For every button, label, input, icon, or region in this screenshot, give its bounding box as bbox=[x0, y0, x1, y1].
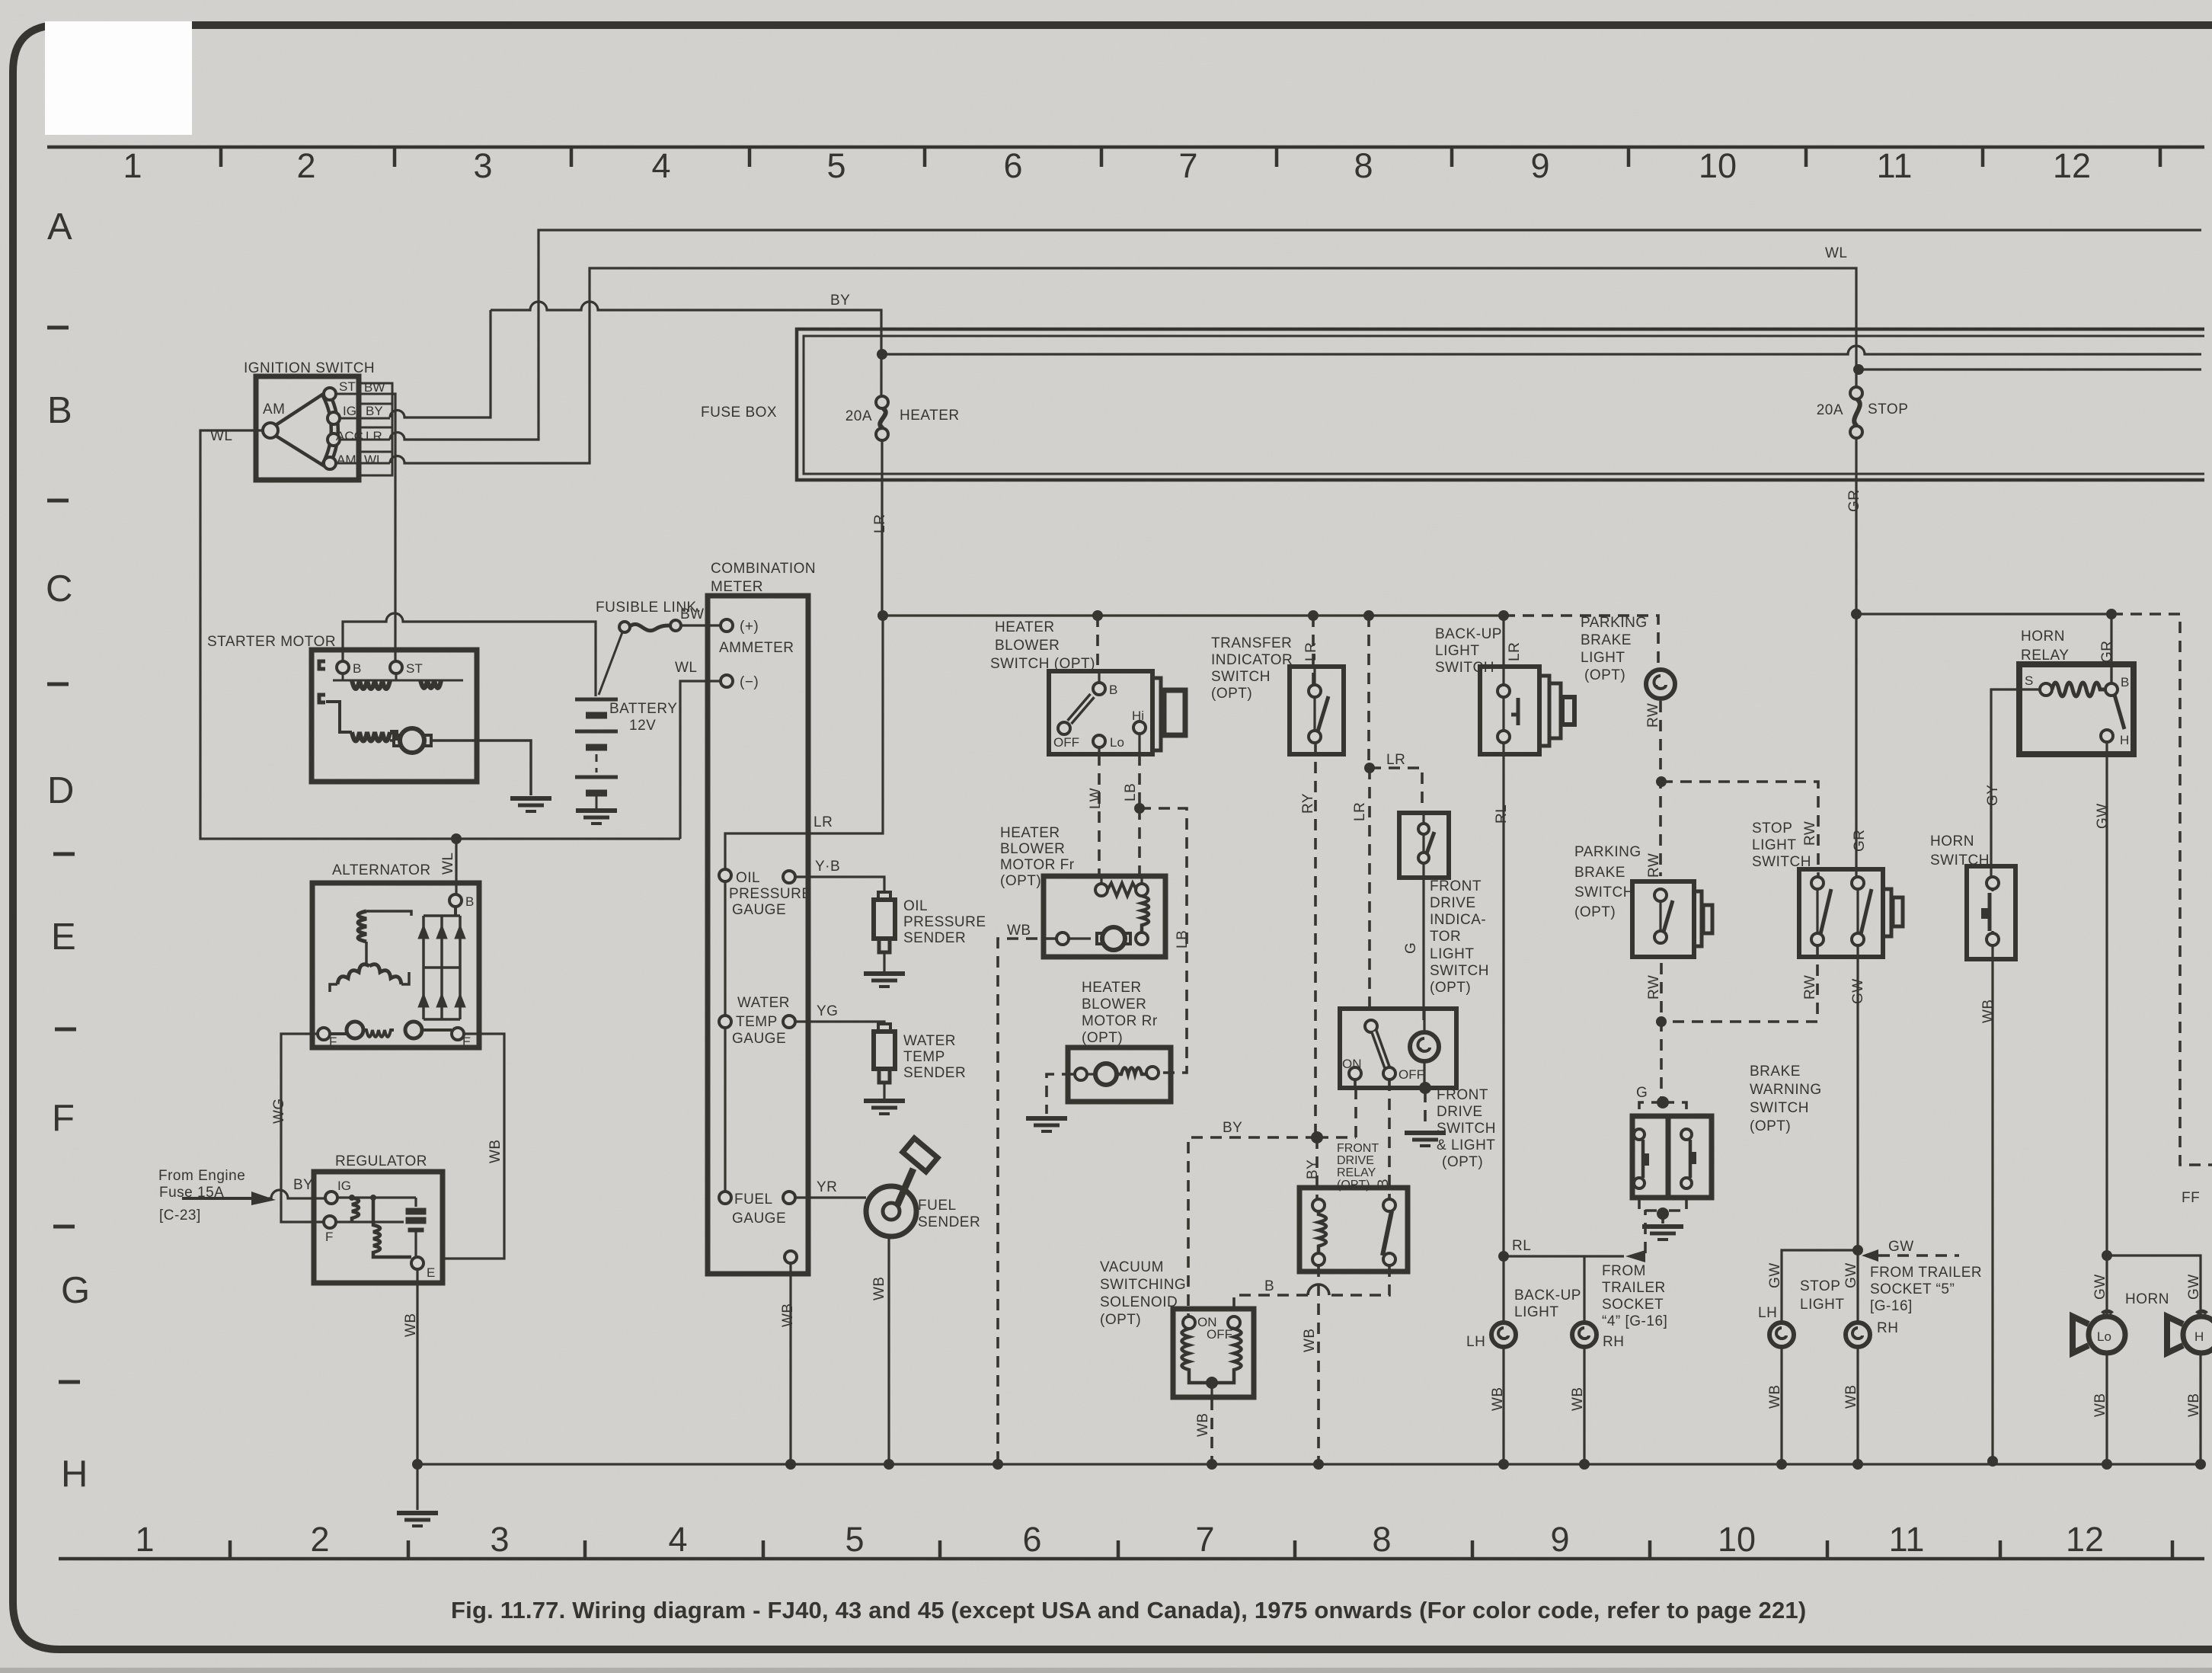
svg-text:3: 3 bbox=[490, 1520, 509, 1559]
svg-text:GW: GW bbox=[2095, 803, 2111, 829]
svg-text:BLOWER: BLOWER bbox=[1000, 841, 1065, 857]
svg-text:INDICATOR: INDICATOR bbox=[1211, 652, 1293, 668]
svg-text:[C-23]: [C-23] bbox=[159, 1208, 201, 1224]
svg-text:12: 12 bbox=[2066, 1520, 2104, 1559]
svg-text:GR: GR bbox=[1852, 830, 1868, 852]
svg-text:1: 1 bbox=[135, 1520, 154, 1559]
svg-text:LIGHT: LIGHT bbox=[1581, 650, 1625, 666]
svg-text:H: H bbox=[2194, 1329, 2204, 1344]
svg-text:STOP: STOP bbox=[1800, 1278, 1840, 1294]
svg-text:GAUGE: GAUGE bbox=[732, 1211, 786, 1227]
svg-text:From Engine: From Engine bbox=[158, 1168, 245, 1184]
svg-text:7: 7 bbox=[1178, 146, 1197, 185]
svg-text:BY: BY bbox=[1223, 1120, 1242, 1136]
svg-text:WB: WB bbox=[780, 1303, 796, 1327]
svg-text:PARKING: PARKING bbox=[1581, 615, 1648, 631]
svg-text:B: B bbox=[353, 661, 361, 676]
svg-text:ST: ST bbox=[339, 379, 356, 394]
svg-text:D: D bbox=[47, 770, 74, 811]
svg-text:20A: 20A bbox=[1817, 402, 1843, 418]
svg-text:HEATER: HEATER bbox=[995, 619, 1055, 635]
svg-text:RH: RH bbox=[1877, 1320, 1898, 1336]
svg-text:LR: LR bbox=[1507, 642, 1523, 661]
svg-text:PRESSURE: PRESSURE bbox=[729, 886, 812, 902]
svg-text:6: 6 bbox=[1022, 1520, 1041, 1559]
svg-text:GW: GW bbox=[2092, 1274, 2108, 1300]
svg-text:BACK-UP: BACK-UP bbox=[1435, 626, 1502, 642]
svg-text:8: 8 bbox=[1354, 146, 1373, 185]
svg-text:10: 10 bbox=[1718, 1520, 1756, 1559]
svg-text:RELAY: RELAY bbox=[2021, 648, 2069, 664]
svg-text:SENDER: SENDER bbox=[903, 1065, 966, 1081]
svg-text:REGULATOR: REGULATOR bbox=[335, 1153, 427, 1169]
svg-text:YR: YR bbox=[817, 1179, 837, 1195]
svg-text:G: G bbox=[1636, 1085, 1648, 1101]
svg-text:TEMP: TEMP bbox=[736, 1014, 778, 1030]
svg-text:Fuse 15A: Fuse 15A bbox=[159, 1185, 224, 1201]
svg-text:BLOWER: BLOWER bbox=[995, 638, 1060, 654]
svg-text:3: 3 bbox=[473, 146, 492, 185]
svg-text:WB: WB bbox=[487, 1139, 503, 1163]
svg-text:HEATER: HEATER bbox=[1082, 980, 1142, 996]
svg-text:IG: IG bbox=[343, 404, 356, 418]
svg-text:F: F bbox=[329, 1035, 337, 1049]
svg-text:(OPT): (OPT) bbox=[1430, 980, 1471, 996]
svg-text:VACUUM: VACUUM bbox=[1100, 1259, 1164, 1275]
svg-text:SOLENOID: SOLENOID bbox=[1100, 1294, 1178, 1310]
svg-text:COMBINATION: COMBINATION bbox=[711, 561, 816, 577]
svg-text:AM: AM bbox=[337, 453, 356, 467]
svg-text:(OPT): (OPT) bbox=[1750, 1118, 1791, 1134]
svg-text:BY: BY bbox=[830, 293, 850, 309]
svg-text:RW: RW bbox=[1646, 975, 1662, 1000]
svg-text:OFF: OFF bbox=[1053, 735, 1079, 750]
svg-text:BY: BY bbox=[293, 1177, 313, 1193]
svg-text:LH: LH bbox=[1466, 1334, 1485, 1350]
svg-text:ALTERNATOR: ALTERNATOR bbox=[332, 862, 431, 878]
svg-text:FUSE BOX: FUSE BOX bbox=[701, 405, 777, 421]
svg-text:(OPT): (OPT) bbox=[1584, 667, 1625, 683]
svg-text:WARNING: WARNING bbox=[1750, 1082, 1822, 1098]
svg-text:11: 11 bbox=[1877, 146, 1913, 185]
svg-text:HORN: HORN bbox=[2125, 1291, 2169, 1307]
svg-text:WB: WB bbox=[1570, 1387, 1586, 1411]
svg-text:SWITCH: SWITCH bbox=[1750, 1100, 1809, 1116]
svg-text:E: E bbox=[51, 916, 76, 958]
svg-text:BY: BY bbox=[1305, 1160, 1321, 1179]
svg-text:TRANSFER: TRANSFER bbox=[1211, 635, 1292, 651]
svg-text:BW: BW bbox=[364, 380, 385, 395]
svg-text:STARTER MOTOR: STARTER MOTOR bbox=[207, 634, 336, 650]
svg-text:C: C bbox=[46, 568, 72, 609]
svg-text:S: S bbox=[2025, 673, 2033, 688]
svg-text:Y·B: Y·B bbox=[815, 859, 840, 875]
svg-text:9: 9 bbox=[1550, 1520, 1569, 1559]
svg-text:HEATER: HEATER bbox=[1000, 825, 1060, 841]
svg-text:H: H bbox=[61, 1454, 88, 1495]
svg-text:12V: 12V bbox=[629, 718, 656, 734]
svg-text:BY: BY bbox=[366, 404, 383, 418]
svg-text:E: E bbox=[427, 1265, 435, 1280]
svg-text:WL: WL bbox=[1825, 245, 1848, 261]
svg-text:RY: RY bbox=[1300, 793, 1316, 814]
svg-text:STOP: STOP bbox=[1868, 401, 1908, 417]
svg-text:9: 9 bbox=[1530, 146, 1549, 185]
svg-text:FRONT: FRONT bbox=[1337, 1142, 1379, 1155]
svg-text:F: F bbox=[325, 1230, 333, 1244]
svg-text:MOTOR Rr: MOTOR Rr bbox=[1082, 1013, 1158, 1029]
svg-text:7: 7 bbox=[1195, 1520, 1214, 1559]
svg-text:B: B bbox=[465, 894, 474, 909]
svg-text:BATTERY: BATTERY bbox=[609, 701, 677, 717]
svg-text:BRAKE: BRAKE bbox=[1750, 1064, 1801, 1080]
svg-text:Hi: Hi bbox=[1132, 709, 1144, 723]
svg-text:5: 5 bbox=[845, 1520, 864, 1559]
svg-text:FRONT: FRONT bbox=[1430, 878, 1482, 894]
svg-text:6: 6 bbox=[1003, 146, 1022, 185]
svg-text:G: G bbox=[61, 1270, 90, 1311]
svg-text:H: H bbox=[2120, 733, 2129, 747]
svg-text:PARKING: PARKING bbox=[1574, 844, 1641, 860]
svg-text:HORN: HORN bbox=[1930, 833, 1974, 849]
svg-text:SWITCH: SWITCH bbox=[1437, 1121, 1496, 1137]
svg-text:1: 1 bbox=[123, 146, 142, 185]
svg-text:SWITCH: SWITCH bbox=[1435, 660, 1494, 676]
svg-text:2: 2 bbox=[296, 146, 315, 185]
svg-text:Lo: Lo bbox=[2097, 1329, 2111, 1344]
svg-text:LR: LR bbox=[872, 514, 888, 533]
svg-text:LB: LB bbox=[1175, 930, 1191, 948]
svg-text:SOCKET: SOCKET bbox=[1602, 1297, 1664, 1313]
svg-text:GAUGE: GAUGE bbox=[732, 902, 786, 918]
svg-text:SWITCH: SWITCH bbox=[1430, 963, 1489, 979]
svg-text:B: B bbox=[1376, 1179, 1392, 1188]
svg-text:SWITCHING: SWITCHING bbox=[1100, 1277, 1186, 1293]
svg-text:OIL: OIL bbox=[736, 870, 760, 886]
svg-text:2: 2 bbox=[310, 1520, 329, 1559]
svg-text:INDICA-: INDICA- bbox=[1430, 912, 1486, 928]
svg-text:B: B bbox=[2121, 675, 2129, 689]
svg-text:YG: YG bbox=[817, 1003, 838, 1019]
svg-text:(OPT): (OPT) bbox=[1337, 1179, 1370, 1192]
svg-text:LW: LW bbox=[1088, 788, 1104, 809]
svg-text:GW: GW bbox=[2186, 1274, 2202, 1300]
svg-text:FUEL: FUEL bbox=[734, 1192, 773, 1208]
svg-text:IGNITION SWITCH: IGNITION SWITCH bbox=[244, 360, 375, 376]
svg-text:ST: ST bbox=[406, 661, 423, 676]
svg-text:TOR: TOR bbox=[1430, 929, 1461, 945]
svg-text:PRESSURE: PRESSURE bbox=[903, 914, 986, 930]
svg-text:GW: GW bbox=[1843, 1262, 1859, 1288]
svg-text:AMMETER: AMMETER bbox=[719, 640, 794, 656]
svg-text:SWITCH: SWITCH bbox=[1930, 852, 1990, 868]
svg-text:HEATER: HEATER bbox=[900, 408, 960, 424]
svg-text:METER: METER bbox=[711, 579, 763, 595]
svg-text:B: B bbox=[1264, 1278, 1274, 1294]
svg-text:WB: WB bbox=[1195, 1412, 1211, 1437]
svg-text:B: B bbox=[1109, 683, 1117, 697]
svg-text:LIGHT: LIGHT bbox=[1800, 1297, 1844, 1313]
svg-text:FUEL: FUEL bbox=[918, 1198, 957, 1214]
svg-text:MOTOR Fr: MOTOR Fr bbox=[1000, 857, 1075, 873]
svg-text:DRIVE: DRIVE bbox=[1337, 1154, 1374, 1167]
svg-text:LR: LR bbox=[814, 814, 833, 830]
svg-text:GR: GR bbox=[1846, 490, 1862, 513]
svg-text:[G-16]: [G-16] bbox=[1870, 1298, 1913, 1314]
svg-text:G: G bbox=[1403, 942, 1419, 954]
svg-text:LIGHT: LIGHT bbox=[1435, 643, 1479, 659]
svg-text:BRAKE: BRAKE bbox=[1574, 865, 1625, 881]
svg-text:RH: RH bbox=[1603, 1334, 1624, 1350]
svg-text:RW: RW bbox=[1802, 821, 1818, 846]
svg-text:A: A bbox=[47, 206, 72, 248]
svg-text:LH: LH bbox=[1758, 1305, 1777, 1321]
svg-text:WB: WB bbox=[403, 1313, 419, 1337]
svg-text:10: 10 bbox=[1699, 146, 1737, 185]
svg-text:IG: IG bbox=[337, 1179, 351, 1193]
svg-text:Lo: Lo bbox=[1110, 735, 1124, 750]
svg-text:FRONT: FRONT bbox=[1437, 1087, 1488, 1103]
svg-text:RL: RL bbox=[1512, 1238, 1531, 1254]
svg-text:WL: WL bbox=[210, 428, 233, 444]
svg-text:WL: WL bbox=[440, 852, 456, 875]
svg-text:ON: ON bbox=[1342, 1057, 1362, 1071]
svg-text:SOCKET “5”: SOCKET “5” bbox=[1870, 1281, 1955, 1297]
svg-text:SENDER: SENDER bbox=[903, 930, 966, 946]
svg-text:(OPT): (OPT) bbox=[1211, 686, 1252, 702]
svg-text:LR: LR bbox=[366, 429, 382, 443]
svg-text:STOP: STOP bbox=[1752, 821, 1792, 836]
svg-text:ACC: ACC bbox=[336, 429, 363, 443]
svg-text:20A: 20A bbox=[845, 408, 872, 424]
svg-text:WB: WB bbox=[1767, 1384, 1783, 1409]
svg-text:WB: WB bbox=[1843, 1384, 1859, 1409]
svg-text:LR: LR bbox=[1386, 752, 1405, 768]
svg-text:SWITCH: SWITCH bbox=[1211, 669, 1271, 685]
svg-text:(OPT): (OPT) bbox=[1000, 873, 1041, 889]
svg-text:OFF: OFF bbox=[1398, 1067, 1424, 1082]
svg-text:11: 11 bbox=[1889, 1520, 1925, 1559]
svg-text:BRAKE: BRAKE bbox=[1581, 632, 1632, 648]
svg-text:GAUGE: GAUGE bbox=[732, 1031, 786, 1047]
svg-text:4: 4 bbox=[651, 146, 670, 185]
svg-text:GW: GW bbox=[1888, 1239, 1914, 1255]
svg-text:WB: WB bbox=[2092, 1393, 2108, 1417]
svg-text:& LIGHT: & LIGHT bbox=[1437, 1137, 1495, 1153]
svg-text:WB: WB bbox=[1007, 923, 1031, 939]
svg-text:RELAY: RELAY bbox=[1337, 1166, 1376, 1179]
svg-text:5: 5 bbox=[826, 146, 845, 185]
svg-text:(−): (−) bbox=[740, 674, 759, 690]
svg-text:Fig. 11.77. Wiring diagram - F: Fig. 11.77. Wiring diagram - FJ40, 43 an… bbox=[451, 1597, 1806, 1623]
svg-text:GY: GY bbox=[1985, 785, 2001, 806]
svg-text:WB: WB bbox=[1980, 999, 1996, 1023]
svg-text:GR: GR bbox=[2099, 641, 2115, 664]
svg-text:LIGHT: LIGHT bbox=[1752, 837, 1796, 853]
svg-text:FROM TRAILER: FROM TRAILER bbox=[1870, 1265, 1982, 1281]
svg-text:(OPT): (OPT) bbox=[1100, 1312, 1141, 1328]
svg-text:WB: WB bbox=[2186, 1393, 2202, 1417]
svg-text:SWITCH (OPT): SWITCH (OPT) bbox=[990, 656, 1095, 672]
svg-text:(OPT): (OPT) bbox=[1082, 1030, 1123, 1046]
svg-text:F: F bbox=[52, 1098, 75, 1139]
svg-text:RW: RW bbox=[1646, 853, 1662, 878]
svg-text:TRAILER: TRAILER bbox=[1602, 1280, 1666, 1296]
svg-text:DRIVE: DRIVE bbox=[1437, 1104, 1483, 1120]
svg-text:DRIVE: DRIVE bbox=[1430, 895, 1476, 911]
svg-text:SWITCH: SWITCH bbox=[1574, 884, 1634, 900]
svg-text:SWITCH: SWITCH bbox=[1752, 854, 1811, 870]
svg-text:8: 8 bbox=[1372, 1520, 1391, 1559]
svg-text:FF: FF bbox=[2182, 1190, 2200, 1206]
svg-text:WB: WB bbox=[1490, 1387, 1506, 1411]
svg-text:WB: WB bbox=[871, 1276, 887, 1300]
svg-text:BLOWER: BLOWER bbox=[1082, 996, 1146, 1012]
svg-text:BACK-UP: BACK-UP bbox=[1514, 1288, 1581, 1304]
svg-text:TEMP: TEMP bbox=[903, 1049, 945, 1065]
svg-text:LIGHT: LIGHT bbox=[1430, 946, 1474, 962]
svg-text:LR: LR bbox=[1352, 802, 1368, 821]
svg-text:4: 4 bbox=[668, 1520, 687, 1559]
svg-text:B: B bbox=[47, 390, 72, 431]
svg-text:RL: RL bbox=[1494, 805, 1510, 824]
svg-text:WG: WG bbox=[271, 1098, 287, 1124]
svg-text:BW: BW bbox=[680, 606, 705, 622]
svg-text:“4” [G-16]: “4” [G-16] bbox=[1602, 1313, 1667, 1329]
svg-text:AM: AM bbox=[263, 401, 286, 417]
svg-text:SENDER: SENDER bbox=[918, 1214, 980, 1230]
svg-text:OIL: OIL bbox=[903, 898, 928, 914]
svg-text:OFF: OFF bbox=[1207, 1327, 1232, 1342]
svg-text:GW: GW bbox=[1767, 1262, 1783, 1288]
svg-text:LIGHT: LIGHT bbox=[1514, 1304, 1558, 1320]
svg-text:12: 12 bbox=[2053, 146, 2091, 185]
svg-text:WATER: WATER bbox=[903, 1033, 956, 1049]
svg-text:FROM: FROM bbox=[1602, 1263, 1646, 1279]
svg-text:E: E bbox=[462, 1035, 471, 1049]
svg-text:GW: GW bbox=[1850, 978, 1866, 1004]
svg-text:WL: WL bbox=[675, 660, 698, 676]
svg-text:LR: LR bbox=[1303, 642, 1319, 661]
svg-text:LB: LB bbox=[1123, 783, 1139, 801]
svg-text:RW: RW bbox=[1645, 703, 1661, 728]
svg-text:WL: WL bbox=[364, 453, 384, 467]
svg-text:(OPT): (OPT) bbox=[1442, 1154, 1483, 1170]
svg-text:(OPT): (OPT) bbox=[1574, 904, 1616, 920]
svg-text:RW: RW bbox=[1802, 975, 1818, 1000]
svg-text:HORN: HORN bbox=[2021, 629, 2065, 645]
svg-text:WB: WB bbox=[1302, 1328, 1318, 1352]
svg-text:WATER: WATER bbox=[737, 995, 790, 1011]
svg-text:(+): (+) bbox=[740, 619, 759, 635]
